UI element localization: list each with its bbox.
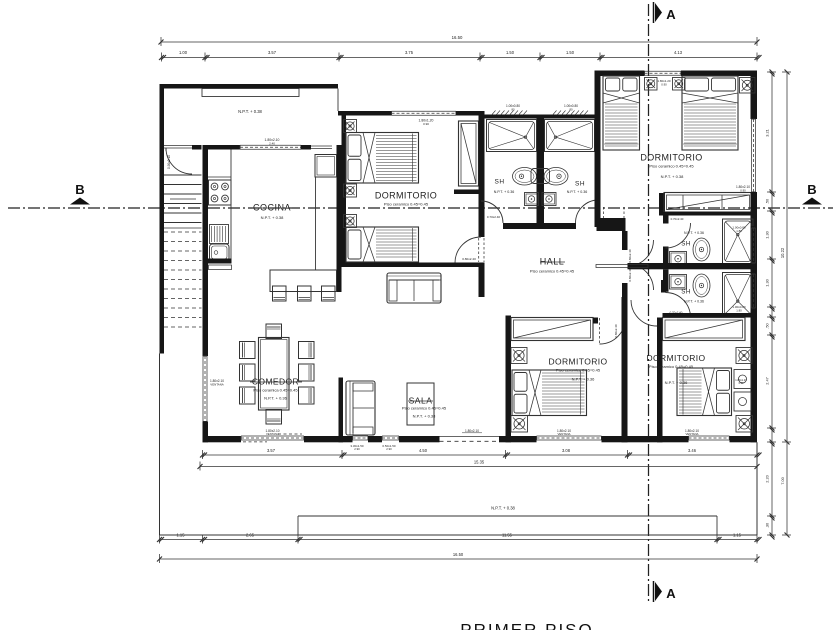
dormitorio 1 planters [344,120,357,133]
svg-text:B: B [807,182,816,197]
bath 4 sink [693,274,710,297]
section line A-A (vertical dash-dot) [648,4,650,604]
section marker A bottom [655,582,662,601]
svg-text:2.90: 2.90 [386,447,392,451]
dormitorio 2 bed double [682,76,738,150]
bath 4 shower [723,273,754,317]
bath 3 west wall [663,213,669,224]
dormitorio 4 bed [677,368,732,416]
svg-text:2.90: 2.90 [354,447,360,451]
dormitorio 3 door [599,318,601,344]
hall east door upper [628,240,654,266]
stair hall landing edge [164,227,202,229]
svg-text:N.P.T. + 0.36: N.P.T. + 0.36 [264,396,287,401]
svg-text:0.90: 0.90 [661,82,667,86]
svg-text:1.50: 1.50 [506,50,515,55]
bathroom 1 door [481,201,503,223]
kitchen west wall [203,145,209,356]
dormitorio 3 east wall [622,297,628,442]
dormitorio 4 door [631,300,657,326]
svg-text:0.70x2.40: 0.70x2.40 [671,217,684,221]
svg-text:A: A [666,7,676,22]
dormitorio 2 corner planter [740,78,756,94]
sala west wall piece [339,378,344,443]
svg-text:.50: .50 [765,198,770,204]
svg-text:1.80x2.10: 1.80x2.10 [465,429,479,433]
svg-text:Piso ceramico 0.45=0.45: Piso ceramico 0.45=0.45 [649,364,694,369]
vestibule west wall [622,231,628,250]
section line B-B (horizontal dash-dot) [8,207,833,209]
svg-text:N.P.T. + 0.36: N.P.T. + 0.36 [494,190,514,194]
dormitorio 2 bed single [603,76,640,150]
svg-text:80: 80 [569,108,573,112]
bathroom sinks pair [531,169,550,184]
dormitorio 1 south wall [342,263,485,268]
svg-text:3.08: 3.08 [562,448,571,453]
bathroom 2 east wall [595,115,601,228]
dormitorio 1 bed 2 [346,227,419,262]
terrace door opening dashed [440,436,500,438]
svg-text:B: B [75,182,84,197]
svg-text:0.80x2.40: 0.80x2.40 [614,324,618,338]
svg-text:1.30: 1.30 [765,230,770,238]
dormitorio 2 east window [751,119,753,192]
svg-text:N.P.T. + 0.38: N.P.T. + 0.38 [491,506,515,511]
svg-text:7.00: 7.00 [780,476,785,484]
bathroom 2 door [576,200,599,223]
svg-text:N.P.T. + 0.36: N.P.T. + 0.36 [684,300,704,304]
bathroom 2 shower [545,120,595,152]
kitchen side counter edge [315,177,317,270]
svg-text:0.80x2.40: 0.80x2.40 [462,257,476,261]
svg-text:Piso ceramica 0.45=0.45: Piso ceramica 0.45=0.45 [253,388,298,393]
svg-text:SALA: SALA [409,396,433,406]
dormitorio 2 nightstand planters [645,78,658,91]
svg-text:Piso ceramico 0.45=0.45: Piso ceramico 0.45=0.45 [402,406,447,411]
svg-text:1.15: 1.15 [177,533,186,538]
svg-text:N.P.T. + 0.36: N.P.T. + 0.36 [572,377,595,382]
hall double door leaf [596,265,648,268]
svg-text:SH: SH [575,181,585,188]
dimension line 15.35 [200,466,757,468]
terrace right edge [756,442,758,535]
dimension line 16.50 top [161,41,757,43]
stair treads [164,174,202,176]
bath 4 toilet [670,275,687,290]
bar stools [273,286,287,301]
svg-text:1.80: 1.80 [736,229,742,233]
terrace bottom edge [160,534,758,536]
entry door arc at porch [164,145,192,147]
dormitorio 4 west wall [657,318,663,443]
dimension line terrace bottom [160,539,758,541]
svg-text:.30: .30 [765,522,770,528]
bath 4 door [666,293,691,318]
stair hall left wall [160,148,165,354]
svg-text:N.P.T. + 0.38: N.P.T. + 0.38 [261,215,284,220]
dormitorio 3 wardrobe [511,318,593,341]
building south wall dorm4 segment with window [657,436,689,442]
dimension line room widths bottom [203,454,758,456]
svg-text:DORMITORIO: DORMITORIO [375,191,437,201]
dormitorio 4 wardrobe [663,318,746,341]
svg-text:1.80: 1.80 [736,308,742,312]
svg-text:2.20: 2.20 [765,474,770,482]
svg-text:3.75: 3.75 [405,50,414,55]
svg-text:1.50: 1.50 [566,50,575,55]
svg-text:4.50: 4.50 [419,448,428,453]
building south wall comedor segment with window [203,436,242,442]
svg-text:N.P.T. + 0.36: N.P.T. + 0.36 [567,190,587,194]
svg-text:Piso ceramico 0.45=0.45: Piso ceramico 0.45=0.45 [530,269,575,274]
svg-text:DORMITORIO: DORMITORIO [646,353,705,363]
dimension line right outer 10.22 [786,72,788,535]
building south wall dorm3 window [537,435,602,437]
svg-text:Piso ceramica 0.45=0.45: Piso ceramica 0.45=0.45 [556,368,601,373]
bathroom 1 shower [487,120,537,152]
svg-text:16.50: 16.50 [452,35,463,40]
terrace left edge [159,354,161,536]
dimension line segments top [161,57,757,59]
svg-text:11.55: 11.55 [502,533,513,538]
sala center table [407,383,434,425]
svg-text:15.35: 15.35 [474,460,485,465]
svg-text:3.57: 3.57 [267,448,276,453]
baths 3-4 divider wall [628,263,754,269]
sala sofa horizontal [387,273,441,303]
comedor west wall lower window [202,356,204,422]
svg-text:10.22: 10.22 [780,247,785,258]
bath 3 toilet [670,252,687,267]
hall northeast wall piece [597,218,626,231]
svg-text:N.P.T. + 0.38: N.P.T. + 0.38 [238,109,262,114]
kitchen top wall with window [207,145,241,150]
comedor chairs [266,324,282,339]
porch outline [160,84,339,89]
dormitorio 2 east wall upper [751,71,758,120]
svg-text:Piso ceramico 0.45=0.45: Piso ceramico 0.45=0.45 [649,164,694,169]
svg-text:VENTANA: VENTANA [210,382,224,386]
dimension line 16.50 bottom [160,558,758,560]
svg-text:2.47: 2.47 [765,377,770,385]
dormitorio 1 top wall with window [338,111,392,116]
svg-text:0.90x2.10: 0.90x2.10 [167,155,171,169]
building south wall sala segment with windows [304,436,353,442]
svg-text:COMEDOR: COMEDOR [252,377,299,387]
svg-text:0.90: 0.90 [740,188,746,192]
svg-text:0.80x2.40: 0.80x2.40 [628,268,632,282]
svg-text:4.13: 4.13 [674,50,683,55]
kitchen sink bowl [210,244,230,261]
kitchen pass-through counter [209,265,232,270]
svg-text:N.P.T. + 0.36: N.P.T. + 0.36 [684,231,704,235]
svg-text:N.P.T. + 0.36: N.P.T. + 0.36 [665,380,688,385]
svg-text:COCINA: COCINA [253,203,291,213]
section marker A top [655,3,662,22]
dormitorio 1 wardrobe [459,121,479,186]
svg-text:0.90: 0.90 [739,382,744,385]
sala sofa vertical [346,381,375,435]
dormitorio 3 planters [511,348,527,364]
bathroom 1 top wall with window [482,115,597,119]
kitchen bottom wall [203,259,232,264]
hall east door lower [628,264,654,290]
dormitorio 4 planters [736,348,752,364]
porch right edge line [337,89,339,112]
svg-text:1.15: 1.15 [733,533,742,538]
svg-text:0.70x2.40: 0.70x2.40 [487,215,501,219]
shaft wall piece [661,280,666,293]
dormitorio 2 top wall with window [595,71,645,77]
bath 3 sink [693,238,710,261]
porch bottom wall at entry [192,145,202,150]
comedor west wall bottom cap [203,422,209,443]
bathrooms bottom walls [503,223,544,229]
bath 3 shower [723,219,754,264]
svg-text:0.90: 0.90 [423,122,429,126]
porch step recess [202,89,299,97]
kitchen-dorm wall [337,145,342,292]
kitchen tall cabinet [315,155,337,178]
dormitorio 1 bed 1 [346,133,419,184]
dormitorio 4 nightstands [734,370,751,389]
svg-text:0.80x2.40: 0.80x2.40 [628,249,632,263]
svg-text:.50: .50 [765,322,770,328]
kitchen counter front edge [230,150,232,259]
svg-text:SH: SH [681,241,691,248]
kitchen stove [209,180,232,205]
svg-text:N.P.T. + 0.38: N.P.T. + 0.38 [413,414,436,419]
svg-text:DORMITORIO: DORMITORIO [548,357,607,367]
svg-text:VENTANA: VENTANA [557,432,570,436]
svg-text:80: 80 [511,108,515,112]
dormitorio 2 east wall lower [751,192,758,226]
svg-text:1.30: 1.30 [765,278,770,286]
bath 3 door [666,223,691,248]
svg-text:PRIMER PISO: PRIMER PISO [460,621,593,631]
dormitorio 3 bed [512,370,587,416]
svg-text:N.P.T. + 0.38: N.P.T. + 0.38 [661,174,684,179]
dormitorio 1 east wall [479,114,485,237]
dormitorio 2 west wall [595,76,601,115]
building east wall middle [751,226,758,442]
svg-text:3.46: 3.46 [688,448,697,453]
svg-text:2.65: 2.65 [246,533,255,538]
dormitorio 1 door [455,237,481,263]
dormitorio 2 wardrobe long [659,193,665,213]
svg-text:SH: SH [494,179,504,186]
bathroom divider wall [537,118,545,227]
svg-text:SH: SH [681,289,691,296]
kitchen sink drainboard [210,225,229,244]
building south wall hall-dorm3 corner [499,436,537,442]
dormitorio 3 west wall [506,316,512,443]
bar counter [270,270,337,292]
bathroom toilets pair [525,193,539,206]
svg-text:VENTANA: VENTANA [266,432,279,436]
svg-text:VENTANA: VENTANA [685,432,698,436]
svg-text:1.00: 1.00 [179,50,188,55]
bath 4 south wall [663,313,754,318]
svg-text:3.57: 3.57 [268,50,277,55]
terrace inner step [298,515,717,517]
svg-text:3.21: 3.21 [765,129,770,137]
dimension line right inner [771,72,773,535]
svg-text:HALL: HALL [540,257,565,267]
svg-text:Piso ceramico 0.45=0.45: Piso ceramico 0.45=0.45 [384,202,429,207]
svg-text:DORMITORIO: DORMITORIO [640,153,702,163]
svg-text:A: A [666,586,676,601]
svg-text:16.50: 16.50 [453,552,464,557]
dormitorio 1 west wall [342,111,347,267]
comedor dining table [259,338,290,411]
svg-text:2.40: 2.40 [269,142,275,146]
